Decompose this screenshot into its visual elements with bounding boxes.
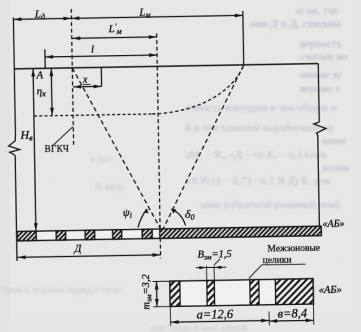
leader of Межзоновые целики xyxy=(249,264,306,278)
label a=12,6 xyxy=(196,307,234,322)
wire: dimension line Lм xyxy=(71,15,242,18)
wire: tick at left end of l xyxy=(44,49,46,68)
inset massif block xyxy=(275,279,313,305)
wire: dimension line Lд xyxy=(13,18,71,19)
dashed vertical node line 1 (x=74) xyxy=(71,9,73,146)
angle arc ψi xyxy=(138,209,147,227)
svg-text:И ввод: И ввод xyxy=(95,182,124,193)
dashed right ray of fan xyxy=(160,65,246,229)
node A label xyxy=(35,69,43,81)
svg-text:Межзоновые: Межзоновые xyxy=(267,244,320,255)
svg-text:Взм=1,5: Взм=1,5 xyxy=(197,249,231,262)
svg-text:«АБ»: «АБ» xyxy=(319,285,342,296)
svg-text:и нес: и нес xyxy=(90,154,113,165)
inset pillar 2 (Взм) xyxy=(207,280,215,305)
inset cell divider lines xyxy=(179,281,181,306)
dashed subsidence curve xyxy=(151,65,244,114)
label l xyxy=(91,43,94,55)
dashed horizontal ВГКЧ level line xyxy=(34,114,155,116)
svg-text:верхно т: верхно т xyxy=(300,83,340,95)
svg-text:«АБ»: «АБ» xyxy=(322,219,344,230)
label L'м xyxy=(107,22,121,36)
seam strip pillar cell 3 xyxy=(85,230,95,240)
dimension a ticks xyxy=(169,306,171,325)
label в=8,4 xyxy=(277,306,307,321)
label Hв xyxy=(19,128,33,143)
dimension Hв vertical xyxy=(33,69,36,232)
label ВГКЧ xyxy=(45,143,70,153)
dimension Взм arrows xyxy=(196,266,226,269)
inset pillar 3 xyxy=(250,280,259,305)
svg-text:ВГКЧ: ВГКЧ xyxy=(45,143,70,153)
label Д xyxy=(73,243,82,255)
svg-text:считыв но: считыв но xyxy=(300,51,348,63)
dimension Д xyxy=(18,255,161,257)
svg-text:ы он. тче: ы он. тче xyxy=(296,5,338,17)
svg-text:a=12,6: a=12,6 xyxy=(196,307,234,322)
dimension ηк vertical xyxy=(50,68,53,115)
svg-text:нами: нами xyxy=(322,135,346,147)
label Взм=1,5 xyxy=(197,249,231,262)
seam strip pillar cell 4 xyxy=(113,230,122,240)
label δ0 xyxy=(185,207,195,222)
svg-text:ⅎМ‚ – R„ «Д – ти К‚ – и‚) town: ⅎМ‚ – R„ «Д – ти К‚ – и‚) town xyxy=(185,149,327,161)
wire: right edge vertical with break xyxy=(318,64,319,122)
svg-text:Д: Д xyxy=(73,243,82,255)
ВГКЧ leader line xyxy=(52,127,73,146)
faint bleed-through text (bottom and middle) xyxy=(2,154,248,332)
svg-text:mзм=3,2: mзм=3,2 xyxy=(141,273,154,309)
seam strip massif «АБ» hatched block xyxy=(160,226,322,238)
label ψi xyxy=(123,207,132,220)
svg-text:очность контуров и зон общив н: очность контуров и зон общив н xyxy=(185,102,337,114)
dimension a line xyxy=(171,320,270,322)
seam strip border xyxy=(17,226,321,241)
svg-text:l: l xyxy=(91,43,94,55)
dimension x with bracket xyxy=(73,85,101,87)
seam strip pillar cell 1 xyxy=(17,231,36,241)
svg-text:новые зу: новые зу xyxy=(300,69,342,81)
dashed left ray of fan xyxy=(72,66,160,230)
svg-text:в=8,4: в=8,4 xyxy=(277,306,307,321)
wire: dimension line l xyxy=(45,55,157,57)
svg-text:й и зон влияний выработкми пр: й и зон влияний выработкми пр xyxy=(185,122,334,134)
dimension mзм extension lines xyxy=(153,280,170,282)
wire: vertical at right end of Lм xyxy=(242,11,245,65)
label «АБ» upper xyxy=(322,219,344,230)
svg-text:ние твида в мыс ийной: ние твида в мыс ийной xyxy=(150,323,248,332)
svg-text:A: A xyxy=(35,69,43,81)
inset band outline xyxy=(170,279,314,307)
inset pillar 1 xyxy=(170,281,180,306)
wire: ground surface main line xyxy=(14,64,318,69)
seam strip pillar cell 5 xyxy=(142,229,152,239)
label x xyxy=(82,75,88,86)
svg-text:ами Д и Д, считыва: ами Д и Д, считыва xyxy=(250,18,341,30)
seam strip: outline xyxy=(17,226,321,241)
svg-text:верность: верность xyxy=(300,38,342,50)
label «АБ» lower xyxy=(319,285,342,296)
seam strip cell divider lines xyxy=(35,231,37,240)
dimension mзм line xyxy=(156,281,158,306)
wire: left edge vertical with break xyxy=(13,17,15,135)
svg-text:5X35 (1 – 0,73 · 0,1 Я Д) Б‚ д: 5X35 (1 – 0,73 · 0,1 Я Д) Б‚ дов xyxy=(185,175,330,187)
wire: dimension line L'м xyxy=(72,37,156,38)
dimension Взм ticks xyxy=(206,266,208,281)
label Lд xyxy=(34,8,45,21)
angle arc δ0 xyxy=(171,209,185,226)
inset band border xyxy=(170,279,314,307)
dimension в line xyxy=(269,319,313,322)
label Lм xyxy=(138,6,150,19)
svg-text:прив е пcitionе поряд е тичн: прив е пcitionе поряд е тичн xyxy=(2,285,122,296)
dashed vertical node line 2 (x=159) xyxy=(157,33,161,258)
seam strip pillar cell 2 xyxy=(56,231,66,241)
bleed-through text from overleaf page (right margin) xyxy=(185,5,349,211)
svg-text:колив: колив xyxy=(322,162,349,174)
label ηк xyxy=(37,85,47,98)
label Межзоновые целики xyxy=(262,244,320,267)
label mзм=3,2 (rotated) xyxy=(141,273,154,309)
